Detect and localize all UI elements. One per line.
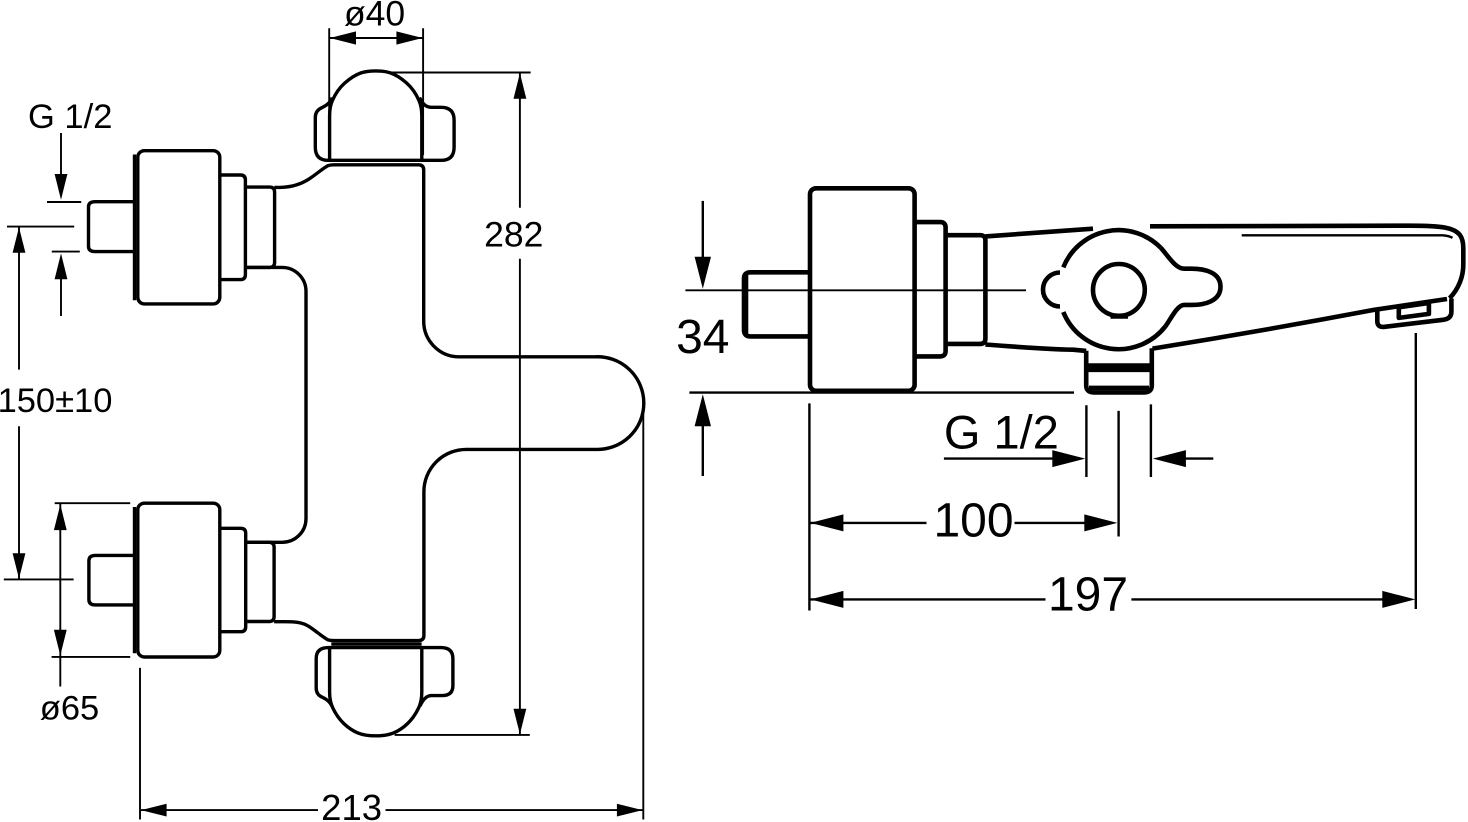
dimension 213 line [141,809,318,811]
upper wall flange [138,151,220,304]
spout bottom slant edge [1153,299,1448,349]
dimension 197 line [810,598,1045,600]
side step ring 1 [915,222,946,356]
G1/2 right underline leader and arrows [944,457,1054,459]
lower flange back edge [133,507,136,653]
svg-text:G 1/2: G 1/2 [944,405,1059,458]
svg-text:G 1/2: G 1/2 [28,98,112,136]
dimension 34 upper arrow [702,201,704,258]
top outlet bell cap [330,71,422,160]
handle left bump [1043,273,1060,307]
handle inner cap circle [1093,264,1145,316]
svg-text:ø65: ø65 [40,690,99,728]
handle right tab [1161,248,1221,327]
dimension 197 extension line right [1415,333,1417,609]
dimension 150+-10 line [18,227,20,370]
upper step cylinder 1 [220,175,246,280]
aerator insert [1399,303,1429,318]
body slab left edge [245,267,306,542]
bottom outlet ear nut [316,648,453,707]
outlet seam lines [1086,363,1152,368]
side step ring 2 [946,235,986,344]
dimension 100 line [810,522,926,524]
svg-text:197: 197 [1048,569,1128,622]
dimension o65 line [59,504,61,687]
shower outlet port [1086,348,1152,392]
dimension 282 extension lines [388,72,531,74]
svg-text:ø40: ø40 [344,0,405,34]
handle main circle arcs [1063,230,1160,267]
svg-text:150±10: 150±10 [0,382,112,420]
dimension o65 extension lines [55,502,131,504]
body cone bottom edge [985,345,1086,351]
dimension o40 line [330,37,423,39]
svg-text:34: 34 [676,311,729,364]
lower wall nipple G1/2 [89,555,136,605]
lower step cylinder 1 [220,528,246,631]
svg-text:213: 213 [321,787,382,822]
bottom outlet bell cap [330,647,422,736]
body outline right side with spout tongue [274,165,644,641]
upper wall nipple G1/2 [89,202,137,252]
svg-text:282: 282 [484,215,543,255]
spout inner highlight line [1242,235,1453,238]
dimension 150+-10 extension lines [7,226,74,228]
dimension 34 lower arrow [695,394,711,426]
side wall flange block [810,188,915,390]
G1/2 leader and arrows [60,133,62,175]
G1/2 right extension lines [1085,405,1087,477]
aerator insert top line [1399,304,1427,308]
side nipple [744,272,809,336]
handle temperature tick [1111,314,1129,319]
dimension 100 extension line left [808,403,810,610]
dimension 34 lower extension line [689,391,1074,393]
dimension 213 extension lines [139,668,141,820]
outlet inner bottom line [1089,386,1149,391]
body cone top edge [985,229,1093,237]
dimension o40 extension lines [328,28,330,152]
aerator housing [1377,299,1451,327]
dimension 282 line [519,73,521,208]
bottom outlet seam line [331,642,421,645]
lower wall flange [138,503,220,657]
top outlet ear nut [315,98,454,161]
lower step cylinder 2 [246,542,274,621]
centerline axis [685,289,1026,291]
upper flange back edge [133,155,136,301]
svg-text:100: 100 [933,495,1013,548]
dimension o40 arrowheads [330,31,356,44]
upper step cylinder 2 [245,187,274,267]
spout top edge and tip [1150,226,1463,299]
side nipple thick left edge [744,274,749,336]
